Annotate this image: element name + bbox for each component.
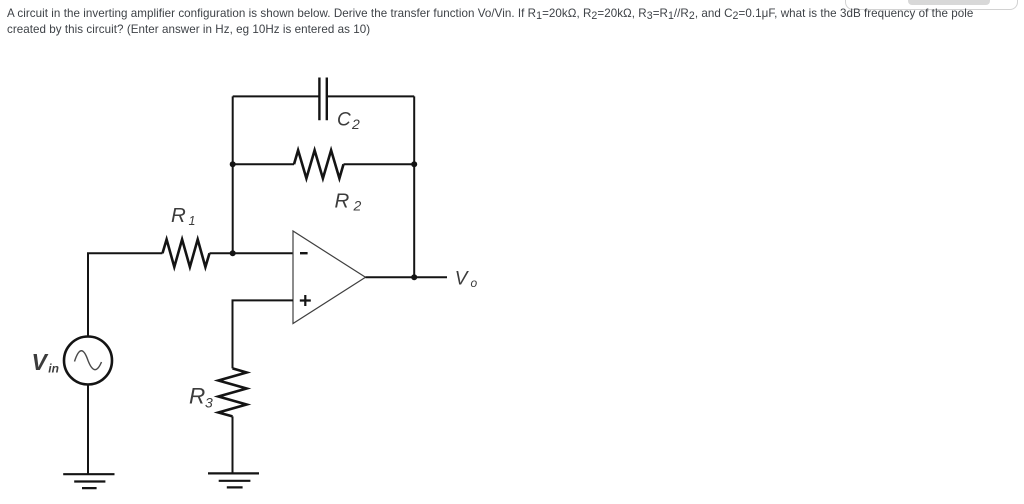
op-amp minus sign bbox=[300, 252, 308, 254]
ground: Vin ground symbol bbox=[63, 474, 114, 488]
wire: R1 to inverting input bbox=[210, 252, 294, 254]
wire: Vin top lead up to R1 row bbox=[88, 253, 163, 337]
question text bbox=[7, 6, 1024, 38]
capacitor C2 bbox=[319, 78, 326, 121]
svg-text:2: 2 bbox=[353, 198, 362, 214]
svg-text:V: V bbox=[32, 349, 49, 375]
svg-text:3: 3 bbox=[205, 395, 213, 411]
ground: R3 ground symbol bbox=[208, 473, 259, 487]
wire: feedback left vertical bbox=[232, 96, 234, 253]
svg-text:V: V bbox=[455, 268, 470, 289]
svg-text:C: C bbox=[337, 110, 351, 131]
node: R2 right junction bbox=[411, 161, 417, 167]
wire: R2 left lead bbox=[233, 163, 294, 165]
label Vin bbox=[32, 349, 59, 376]
node: R2 left junction bbox=[230, 161, 236, 167]
svg-text:R: R bbox=[171, 204, 186, 227]
wire: Vin bottom lead bbox=[87, 385, 89, 475]
node: inverting input junction bbox=[230, 250, 236, 256]
svg-text:1: 1 bbox=[189, 214, 196, 228]
label R2 bbox=[335, 189, 362, 213]
wire: R3 to ground bbox=[232, 416, 234, 473]
resistor R2 bbox=[294, 150, 344, 178]
label R3 bbox=[189, 383, 213, 410]
wire: op-amp output bbox=[366, 276, 448, 278]
svg-text:R: R bbox=[335, 189, 350, 212]
label Vo bbox=[455, 268, 478, 290]
voltage source Vin bbox=[64, 337, 112, 385]
label C2 bbox=[337, 110, 360, 132]
svg-text:R: R bbox=[189, 383, 205, 408]
wire: C2 right lead bbox=[327, 95, 414, 97]
browser scrollbar fragment top right bbox=[845, 0, 1018, 10]
wire: non-inverting input to R3 bbox=[233, 300, 294, 368]
wire: C2 left lead bbox=[233, 95, 320, 97]
svg-text:in: in bbox=[48, 362, 59, 376]
op-amp U1 bbox=[293, 231, 366, 324]
wire: feedback right vertical bbox=[413, 96, 415, 277]
op-amp plus sign bbox=[300, 295, 311, 306]
resistor R3 bbox=[218, 368, 246, 416]
resistor R1 bbox=[163, 239, 210, 267]
svg-text:o: o bbox=[471, 276, 478, 290]
node: output junction bbox=[411, 274, 417, 280]
label R1 bbox=[171, 204, 195, 228]
svg-text:2: 2 bbox=[351, 116, 360, 132]
sine symbol inside Vin bbox=[75, 351, 102, 370]
wire: R2 right lead bbox=[344, 163, 415, 165]
